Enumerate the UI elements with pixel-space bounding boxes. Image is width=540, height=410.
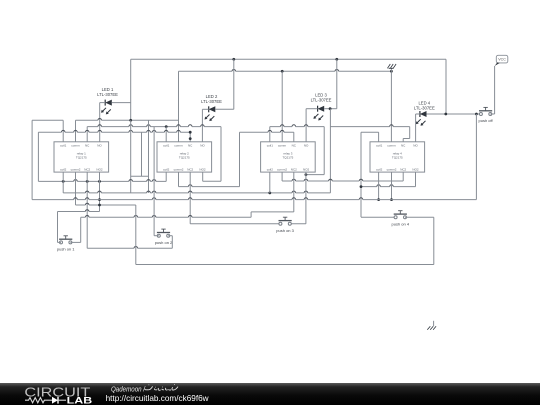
svg-text:coil1: coil1	[60, 143, 67, 147]
svg-text:coil1: coil1	[267, 143, 274, 147]
svg-text:comm2: comm2	[387, 167, 397, 171]
svg-text:NO2: NO2	[303, 167, 310, 171]
svg-text:NO: NO	[413, 143, 418, 147]
svg-text:push on 4: push on 4	[392, 222, 410, 227]
svg-text:NO2: NO2	[412, 167, 419, 171]
svg-text:comm2: comm2	[174, 167, 184, 171]
svg-text:LTL-307EE: LTL-307EE	[201, 99, 222, 104]
svg-text:coil2: coil2	[163, 167, 170, 171]
svg-text:http://circuitlab.com/ck69f6w: http://circuitlab.com/ck69f6w	[106, 394, 209, 403]
svg-text:push off: push off	[479, 118, 494, 123]
svg-text:Qademoon /: Qademoon /	[111, 384, 146, 393]
svg-text:coil2: coil2	[267, 167, 274, 171]
svg-text:comm2: comm2	[71, 167, 81, 171]
svg-text:NO: NO	[304, 143, 309, 147]
svg-text:NC2: NC2	[291, 167, 297, 171]
svg-text:NO: NO	[200, 143, 205, 147]
svg-text:TQ2175: TQ2175	[76, 155, 87, 159]
svg-text:NC2: NC2	[187, 167, 193, 171]
svg-text:push on 1: push on 1	[57, 247, 75, 252]
svg-text:LTL-307EE: LTL-307EE	[311, 98, 332, 103]
svg-text:coil1: coil1	[376, 143, 383, 147]
svg-text:comm: comm	[174, 143, 183, 147]
svg-text:NO2: NO2	[199, 167, 206, 171]
svg-text:push on 3: push on 3	[276, 228, 294, 233]
svg-text:NC2: NC2	[84, 167, 90, 171]
svg-text:comm: comm	[278, 143, 287, 147]
svg-text:comm: comm	[71, 143, 80, 147]
svg-text:LAB: LAB	[67, 395, 93, 405]
svg-text:LTL-307EE: LTL-307EE	[97, 92, 118, 97]
svg-text:TQ2175: TQ2175	[392, 155, 403, 159]
svg-text:TQ2175: TQ2175	[179, 155, 190, 159]
svg-text:push on 2: push on 2	[155, 240, 173, 245]
svg-text:LTL-307EE: LTL-307EE	[414, 105, 435, 110]
svg-text:NO: NO	[97, 143, 102, 147]
svg-text:comm: comm	[387, 143, 396, 147]
svg-text:coil2: coil2	[376, 167, 383, 171]
svg-text:comm2: comm2	[277, 167, 287, 171]
svg-text:NC2: NC2	[400, 167, 406, 171]
svg-text:TQ2175: TQ2175	[282, 155, 293, 159]
svg-text:coil2: coil2	[60, 167, 67, 171]
svg-text:coil1: coil1	[163, 143, 170, 147]
svg-text:NO2: NO2	[96, 167, 103, 171]
svg-text:VCC: VCC	[498, 57, 506, 61]
